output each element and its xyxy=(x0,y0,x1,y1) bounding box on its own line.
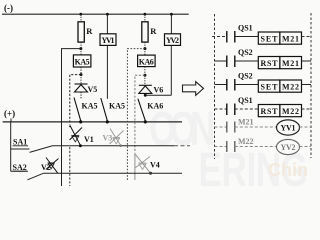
output coil YV2 xyxy=(277,139,312,154)
arrow to PLC program xyxy=(183,82,204,96)
resistor R col1 xyxy=(78,22,84,42)
svg-text:(-): (-) xyxy=(4,3,13,13)
switch SA2 blade xyxy=(28,173,44,179)
svg-text:KA6: KA6 xyxy=(147,101,163,110)
wire dashed branch col1 lower continuation xyxy=(69,147,71,186)
svg-text:V3: V3 xyxy=(103,134,113,143)
svg-text:QS1: QS1 xyxy=(238,96,253,105)
svg-text:RST: RST xyxy=(261,59,279,68)
node junction rail1 col1 xyxy=(79,120,82,123)
instruction RST M21 xyxy=(258,57,311,69)
svg-text:M22: M22 xyxy=(282,83,299,92)
relay coil KA5 xyxy=(73,55,91,67)
svg-text:(+): (+) xyxy=(4,109,15,119)
svg-text:KA5: KA5 xyxy=(75,58,90,67)
svg-text:KA5: KA5 xyxy=(109,102,125,111)
svg-text:V2: V2 xyxy=(41,163,51,172)
svg-text:SA1: SA1 xyxy=(13,138,27,147)
instruction SET M21 xyxy=(258,32,311,44)
svg-text:V4: V4 xyxy=(150,161,160,170)
wire col3 junction to KA6 xyxy=(144,49,146,56)
svg-text:M22: M22 xyxy=(238,137,254,146)
wire left bus xyxy=(10,122,12,171)
contact KA5 blade col2 xyxy=(101,98,108,121)
node junction rail2 V1 xyxy=(79,144,82,147)
rung 6 : contact M22 xyxy=(215,137,277,152)
wire top negative rail xyxy=(2,13,189,15)
svg-text:KA5: KA5 xyxy=(82,102,98,111)
diode V5 xyxy=(75,84,88,92)
svg-text:QS2: QS2 xyxy=(238,72,253,81)
resistor R col3 xyxy=(142,22,148,42)
svg-text:SA2: SA2 xyxy=(13,163,27,172)
wire branch left from junction col3 xyxy=(127,49,144,181)
output coil YV1 xyxy=(277,120,312,135)
svg-text:KA6: KA6 xyxy=(139,57,154,66)
contact KA5 blade col1 xyxy=(74,98,81,121)
node junction top rail col3 xyxy=(144,13,147,16)
wire col1 R to junction xyxy=(80,42,82,49)
svg-text:YV2: YV2 xyxy=(281,143,296,152)
wire dashed branch left below KA6 xyxy=(135,75,145,153)
svg-text:M22: M22 xyxy=(282,107,299,116)
lamp V2 xyxy=(46,158,59,174)
svg-text:SET: SET xyxy=(261,83,279,92)
rung 4 : contact QS1 xyxy=(215,96,259,115)
wire col1 junction to KA5 xyxy=(80,49,82,55)
wire col3 KA6 to junction2 xyxy=(144,67,146,76)
node junction rail1 col3 xyxy=(144,120,147,123)
wire col3 R to junction xyxy=(144,42,146,49)
wire branch left from junction col1 xyxy=(62,49,81,186)
svg-text:YV1: YV1 xyxy=(102,36,115,45)
switch SA1 label underline xyxy=(13,145,29,147)
wire col4 top segment xyxy=(170,14,172,34)
node junction rail2 V3 xyxy=(119,144,122,147)
node junction below KA5 xyxy=(80,73,83,76)
node junction below diode V6 xyxy=(144,94,147,97)
wire col1 top segment xyxy=(80,14,82,22)
wire (+) tick xyxy=(10,119,12,123)
wire col1 below diode xyxy=(80,92,82,99)
node junction rail1 col2 xyxy=(106,120,109,123)
lamp V1 xyxy=(69,125,82,145)
solenoid YV2 xyxy=(165,34,181,46)
node junction below KA6 xyxy=(143,74,146,77)
instruction RST M22 xyxy=(258,105,311,117)
diode V6 xyxy=(139,85,152,93)
wire rail2 xyxy=(52,145,174,147)
svg-text:RST: RST xyxy=(261,107,279,116)
wire positive rail xyxy=(3,121,182,123)
svg-text:R: R xyxy=(150,26,157,36)
wire SA1 stub xyxy=(11,148,30,150)
wire col3 junction2 to diode xyxy=(144,75,146,85)
node junction below R col3 xyxy=(143,47,146,50)
instruction SET M22 xyxy=(258,80,311,92)
rung 5 : contact M21 xyxy=(215,118,277,133)
wire col2 top segment xyxy=(106,14,108,34)
wire branch col3 lower continuation xyxy=(134,153,136,180)
svg-text:V5: V5 xyxy=(88,85,98,94)
svg-text:V6: V6 xyxy=(154,86,164,95)
svg-text:M21: M21 xyxy=(238,118,254,127)
svg-text:M21: M21 xyxy=(282,35,299,44)
svg-text:YV2: YV2 xyxy=(166,36,179,45)
lamp V3 xyxy=(110,129,124,147)
wire dashed branch left below KA5 xyxy=(70,75,81,125)
rung 2 : contact QS2 xyxy=(215,48,259,67)
svg-text:QS2: QS2 xyxy=(238,48,253,57)
svg-text:M21: M21 xyxy=(282,59,299,68)
wire SA2 stub xyxy=(11,170,27,172)
node junction rail3 V4 xyxy=(149,172,152,175)
switch SA2 label underline xyxy=(13,170,29,172)
svg-text:R: R xyxy=(86,26,93,36)
wire col1 KA5 to junction2 xyxy=(80,67,82,75)
switch SA1 blade xyxy=(30,146,53,153)
wire col3 top segment xyxy=(144,14,146,22)
svg-text:Chin: Chin xyxy=(268,160,308,180)
rung 3 : contact QS2 xyxy=(215,72,259,91)
wire ladder right bus xyxy=(310,13,312,158)
wire col2 below YV1 xyxy=(106,45,108,98)
wire V6 bottom to YV2 column xyxy=(145,94,171,96)
svg-text:YV1: YV1 xyxy=(281,124,296,133)
contact KA6 blade col3 xyxy=(138,99,145,121)
wire rail2 dashed tail xyxy=(174,145,190,147)
lamp V4 xyxy=(135,154,151,173)
svg-text:V1: V1 xyxy=(84,135,94,144)
node junction below R col1 xyxy=(79,47,82,50)
svg-text:SET: SET xyxy=(261,35,279,44)
wire col4 below YV2 xyxy=(170,45,172,95)
relay coil KA6 xyxy=(138,55,156,67)
rung 1 : contact QS1 xyxy=(212,24,258,43)
node junction top rail col4 xyxy=(170,13,173,16)
wire col1 junction2 to diode xyxy=(80,75,82,84)
wire rail3 xyxy=(43,172,182,174)
node junction top rail col2 xyxy=(106,13,109,16)
node junction top rail col1 xyxy=(79,13,82,16)
solenoid YV1 xyxy=(100,34,116,46)
wire ladder left bus xyxy=(214,14,216,159)
svg-text:QS1: QS1 xyxy=(238,24,253,33)
